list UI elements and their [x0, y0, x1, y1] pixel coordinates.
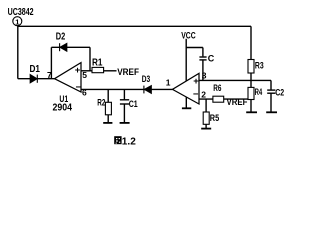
wire R4 top lead: [250, 80, 252, 87]
wire C top lead: [202, 48, 204, 57]
svg-text:UC3842: UC3842: [8, 6, 34, 18]
svg-text:2: 2: [201, 90, 206, 100]
diode D2: [60, 43, 67, 51]
svg-text:C: C: [208, 54, 215, 64]
svg-text:−: −: [76, 82, 82, 93]
svg-text:1: 1: [15, 17, 19, 26]
ground R2: [103, 122, 112, 124]
svg-text:R6: R6: [213, 83, 221, 94]
wire right rail to R3: [250, 26, 252, 59]
wire feedback top: [51, 46, 90, 48]
svg-text:R1: R1: [92, 58, 103, 69]
diode D1: [30, 75, 37, 83]
wire R2 bottom lead: [107, 115, 109, 123]
wire left vertical from node 1: [17, 26, 19, 79]
wire R4 bottom lead to ground: [250, 100, 252, 113]
svg-text:5: 5: [82, 70, 87, 80]
ground C1: [120, 122, 130, 124]
svg-text:R2: R2: [97, 97, 105, 108]
svg-text:R5: R5: [210, 113, 220, 124]
svg-text:1.2: 1.2: [122, 136, 136, 147]
capacitor C1: [120, 100, 129, 104]
svg-text:1: 1: [166, 78, 171, 88]
wire top rail: [18, 25, 251, 27]
wire R3 bottom to pin3 wire: [250, 73, 252, 80]
resistor R6: [213, 96, 224, 102]
ground R5: [201, 128, 211, 130]
svg-text:3: 3: [202, 70, 207, 80]
svg-text:C2: C2: [275, 88, 284, 99]
resistor R5: [203, 112, 209, 124]
capacitor C2: [267, 90, 275, 93]
wire pin 6 output bus to U2: [81, 88, 173, 90]
caption figure 1.2 glyph: [114, 136, 121, 144]
wire feedback right vertical: [89, 47, 91, 71]
svg-text:6: 6: [82, 88, 87, 98]
ground R4: [246, 111, 257, 113]
wire pin 7 input: [18, 78, 55, 80]
wire C1 top lead: [123, 89, 125, 99]
svg-text:C1: C1: [129, 99, 139, 110]
resistor R3: [248, 60, 254, 74]
wire R5 top lead: [205, 99, 207, 112]
capacitor C: [199, 57, 206, 60]
svg-text:VREF: VREF: [227, 97, 248, 107]
wire R1 to VREF: [104, 70, 117, 72]
op-amp U1: [55, 63, 82, 92]
svg-text:+: +: [193, 76, 199, 87]
wire C bottom lead: [202, 60, 204, 80]
resistor R2: [105, 102, 111, 115]
wire C2 bottom lead: [270, 93, 272, 112]
svg-text:VREF: VREF: [117, 67, 139, 78]
node 1 circled terminal: [13, 17, 22, 26]
svg-text:D1: D1: [30, 64, 41, 75]
wire R2 top lead: [107, 89, 109, 102]
wire R5 bottom lead: [205, 124, 207, 128]
svg-text:−: −: [193, 89, 199, 100]
svg-text:R3: R3: [255, 61, 264, 72]
wire VCC lead: [185, 39, 187, 81]
svg-text:D3: D3: [142, 74, 150, 85]
resistor R4: [248, 87, 254, 99]
resistor R1: [92, 67, 104, 72]
svg-text:D2: D2: [56, 32, 66, 43]
wire pin 3: [199, 79, 271, 81]
wire C2 top lead: [270, 80, 272, 89]
wire C1 bottom lead: [123, 104, 125, 122]
wire VCC tap to C: [186, 47, 203, 49]
wire pin 5 stub: [81, 70, 92, 72]
ground U2: [182, 107, 191, 109]
svg-text:+: +: [75, 65, 81, 76]
op-amp U2: [173, 73, 200, 104]
wire feedback left vertical: [50, 47, 52, 78]
wire pin 2: [199, 98, 251, 100]
wire U2 ground lead: [185, 97, 187, 108]
svg-text:7: 7: [47, 70, 52, 80]
svg-text:R4: R4: [255, 87, 263, 98]
svg-text:VCC: VCC: [181, 31, 196, 42]
ground C2: [266, 111, 277, 113]
svg-text:2904: 2904: [53, 102, 73, 114]
diode D3: [144, 86, 151, 94]
